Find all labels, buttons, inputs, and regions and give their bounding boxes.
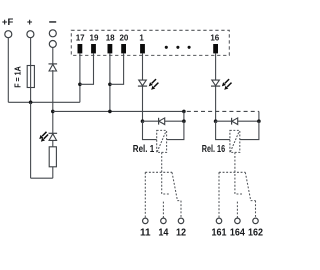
terminal − circle upper [49,30,56,37]
wire − to protection diode [52,48,54,64]
mechanical linkage channel 1 [162,152,170,194]
terminal − circle lower [49,41,56,48]
svg-text:12: 12 [176,228,186,239]
LED channel 16 [211,80,220,86]
wire 18 down to rail B [109,53,111,111]
contact 1 blade [172,172,177,200]
svg-text:162: 162 [248,228,263,239]
wire coil 1 right lead [167,121,184,139]
wire loop to resistor [52,167,54,178]
node channel 16 diode right [257,119,261,123]
riser terminal 11 [144,172,146,218]
ellipsis dots [165,46,191,49]
node 18 on rail B [108,110,112,114]
terminal 12 circle [178,218,184,224]
contact 16 common horizontal [219,171,245,173]
resistor R1 [49,147,56,167]
LED channel 1 arrows [149,79,158,89]
node 17-19 junction [78,83,82,87]
svg-text:19: 19 [90,34,99,43]
terminal + circle [27,31,34,38]
contact 16 blade foot [251,200,256,202]
wire 19 branch [80,53,94,84]
node fuse junction on rail A [29,101,33,105]
wire power-LED loop left vertical [30,102,32,178]
LED power indicator [49,133,58,140]
terminal 14 circle [161,218,167,224]
wire coil 16 right lead [240,121,259,139]
terminal − label [49,21,56,23]
module boundary dashed box [71,30,229,55]
fuse wire through [30,66,32,103]
node channel 1 coil top [141,119,145,123]
freewheel diode V2 [159,118,165,125]
svg-text:20: 20 [119,34,128,43]
wire rail B to diode line channel 16 [258,111,260,121]
fuse F1 body [27,66,34,88]
node channel 16 coil top [214,119,218,123]
terminal 16 square [213,44,218,53]
svg-text:17: 17 [76,34,85,43]
terminal 164 circle [235,218,241,224]
freewheel diode V3 [232,118,238,125]
wire resistor to power LED [52,140,54,147]
wire rail B to diode line channel 1 [183,111,185,121]
contact 16 blade [245,172,250,200]
terminal 162 circle [253,218,259,224]
wire +F down to rail A [7,38,9,103]
wire power-LED loop bottom [31,177,53,179]
terminal 20 square [121,44,126,53]
svg-text:16: 16 [210,34,219,43]
svg-text:F = 1A: F = 1A [13,66,23,88]
riser terminal 12 [180,201,182,218]
rail B 0V dashed continuation [187,110,259,112]
wire coil 1 left lead [143,121,157,139]
mechanical linkage channel 16 [235,152,243,194]
riser terminal 14 [162,202,164,218]
svg-text:+: + [27,17,33,28]
wire 17 down to rail A [79,53,81,102]
relay coil K1 box [157,130,167,152]
wire coil 16 left lead [216,121,230,139]
riser terminal 162 [255,201,257,218]
terminal 11 circle [143,218,149,224]
terminal 1 square [140,44,145,53]
node channel 1 diode right [182,119,186,123]
svg-text:Rel. 16: Rel. 16 [202,144,226,155]
riser terminal 161 [218,172,220,218]
relay coil K16 box [230,130,240,152]
wire terminal 1 down [142,53,144,121]
terminal 161 circle [216,218,222,224]
svg-text:164: 164 [230,228,245,239]
rail B 0V horizontal solid [53,110,184,112]
LED channel 1 [138,80,147,86]
node channel 1 rail B [182,110,186,114]
terminal 18 square [108,44,113,53]
node 18-20 junction [108,83,112,87]
riser terminal 164 [236,202,238,218]
node 0V rail at minus column [51,110,55,114]
wire terminal 16 down [215,53,217,121]
freewheel diode line channel 16 [216,120,259,122]
freewheel diode line channel 1 [143,120,184,122]
svg-text:14: 14 [158,228,168,239]
relay coil K1 diagonal [157,131,166,152]
LED power arrows [40,132,48,141]
wire + to fuse [30,38,32,66]
wire 20 branch [110,53,124,84]
terminal 17 square [78,44,83,53]
wire diode to 0V node [52,70,54,111]
terminal 19 square [91,44,96,53]
svg-text:18: 18 [106,34,115,43]
svg-text:161: 161 [212,228,227,239]
svg-text:Rel. 1: Rel. 1 [133,144,155,155]
relay coil K16 diagonal [230,131,239,152]
svg-text:1: 1 [139,34,144,43]
diode V1 reverse-polarity protection [49,64,58,71]
rail A +24V horizontal [8,101,80,103]
terminal +F circle [5,31,12,38]
svg-text:+F: +F [2,17,14,28]
contact 1 blade foot [177,200,181,202]
wire power LED to 0V rail [52,111,54,133]
LED channel 16 arrows [222,79,231,89]
svg-text:11: 11 [140,228,151,239]
contact 1 common horizontal [145,171,172,173]
